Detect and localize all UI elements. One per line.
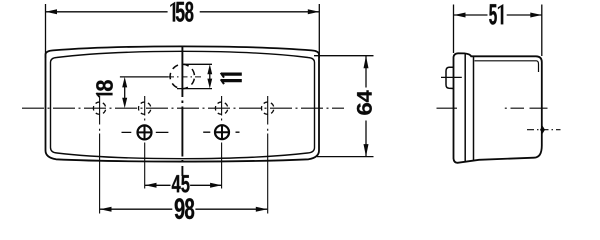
dim text 158 [170, 2, 193, 22]
lens joint line 1 [464, 54, 466, 162]
dashed circle (bulb) [170, 64, 194, 88]
dim 18 reference line [120, 76, 168, 78]
dim 18 arrow line [124, 81, 126, 104]
tangent line top [184, 63, 212, 65]
side centerline [437, 107, 548, 109]
dash through circle [168, 76, 204, 78]
extension line inner-left hole / screw [144, 96, 146, 189]
screw left [122, 125, 169, 139]
dim text 64 [357, 90, 372, 114]
dim 45 line [145, 184, 222, 186]
hole circle A (outer left) [93, 102, 105, 114]
lamp inner outline [51, 51, 315, 158]
dim 11 arrow line [209, 69, 211, 84]
dim 158 extension line left [45, 4, 47, 58]
dim 64 line [365, 56, 367, 157]
dim 51 line [454, 14, 542, 16]
extension line outer-right hole [267, 96, 269, 214]
lamp outer outline [46, 46, 320, 161]
vertical centerline [181, 47, 183, 176]
dim text 18 [96, 80, 113, 91]
dim 158 line [46, 11, 320, 13]
dim 64 extension line top [314, 55, 374, 57]
inner top line [475, 61, 539, 72]
dim 158 extension line right [318, 4, 320, 58]
lens joint line 2 [473, 56, 475, 160]
side outline [454, 53, 542, 163]
dim text 51 [489, 4, 503, 24]
dim text 98 [175, 198, 195, 219]
dim 98 line [100, 208, 267, 210]
dim 64 extension line bottom [317, 156, 374, 158]
screw axis line [527, 129, 561, 131]
hole circle B (inner left) [139, 102, 151, 114]
dim text 45 [172, 175, 190, 192]
tangent line bottom [177, 88, 212, 90]
side bump (grommet) [446, 67, 454, 88]
bump centerline [441, 76, 462, 78]
dim 51 extension/edge left [453, 5, 455, 54]
hole circle D (outer right) [262, 102, 274, 114]
extension line inner-right hole / screw [221, 96, 223, 189]
dim text 11 [221, 74, 241, 81]
screw right [203, 125, 239, 139]
hole circle C (inner right) [215, 102, 227, 114]
horizontal centerline [22, 107, 344, 109]
dim 51 extension/edge right [541, 5, 543, 57]
screw axis mark [540, 126, 545, 134]
extension line outer-left hole [99, 96, 101, 214]
